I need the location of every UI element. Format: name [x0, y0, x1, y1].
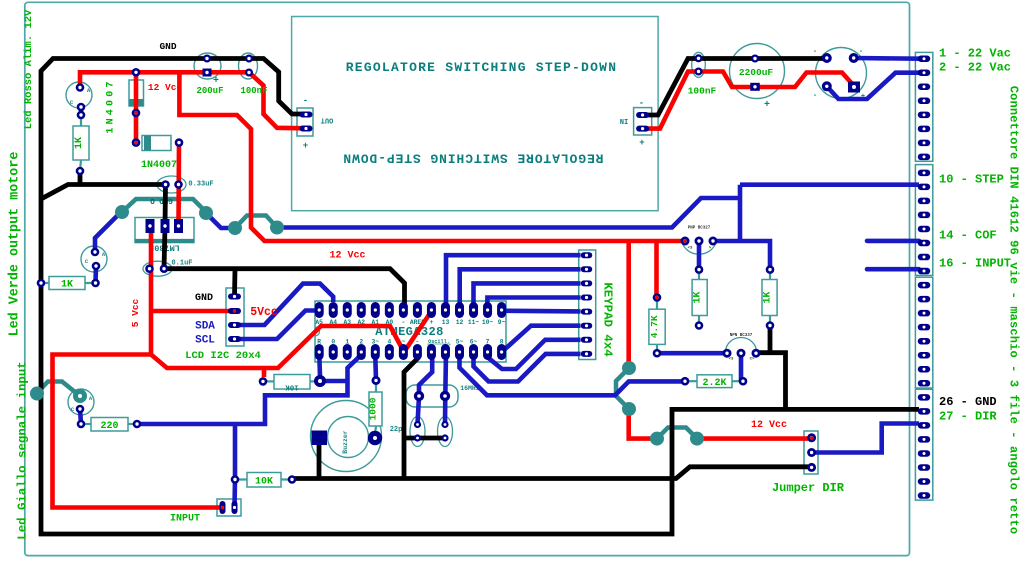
svg-text:Buzzer: Buzzer: [342, 430, 349, 454]
svg-text:27 - DIR: 27 - DIR: [939, 410, 997, 424]
svg-text:13: 13: [442, 319, 450, 326]
svg-text:<3: <3: [688, 246, 693, 251]
svg-text:Jumper DIR: Jumper DIR: [772, 481, 845, 495]
svg-text:SCL: SCL: [195, 335, 215, 347]
svg-text:1 - 22 Vac: 1 - 22 Vac: [939, 47, 1011, 61]
svg-text:1K: 1K: [61, 280, 73, 291]
svg-text:+: +: [303, 141, 308, 151]
svg-text:16 - INPUT: 16 - INPUT: [939, 257, 1011, 271]
svg-text:0.1uF: 0.1uF: [171, 260, 192, 268]
svg-text:1000: 1000: [368, 397, 379, 420]
svg-text:SDA: SDA: [195, 321, 215, 333]
svg-text:+: +: [213, 76, 219, 87]
svg-text:12 Vcc: 12 Vcc: [148, 82, 183, 93]
svg-text:200uF: 200uF: [196, 86, 223, 96]
svg-text:+: +: [430, 319, 434, 326]
svg-text:12 Vcc: 12 Vcc: [751, 420, 787, 431]
svg-text:-: -: [303, 96, 308, 106]
svg-text:-: -: [401, 319, 405, 326]
svg-text:12: 12: [456, 319, 464, 326]
svg-text:22p: 22p: [390, 426, 403, 434]
svg-text:-: -: [639, 99, 644, 109]
svg-text:<3: <3: [729, 357, 734, 362]
svg-text:NPN BC337: NPN BC337: [730, 334, 753, 338]
svg-text:10 - STEP: 10 - STEP: [939, 173, 1004, 187]
svg-text:4.7K: 4.7K: [649, 315, 660, 338]
svg-text:10K: 10K: [255, 477, 273, 488]
svg-text:+: +: [861, 93, 865, 101]
svg-text:1N4007: 1N4007: [106, 78, 117, 133]
svg-text:GND: GND: [195, 293, 213, 304]
svg-text:5 Vcc: 5 Vcc: [130, 298, 141, 327]
svg-text:1K: 1K: [763, 291, 774, 303]
svg-text:-: -: [813, 92, 817, 100]
svg-text:2 - 22 Vac: 2 - 22 Vac: [939, 61, 1011, 75]
svg-text:100nF: 100nF: [240, 86, 267, 96]
svg-text:0.33uF: 0.33uF: [188, 181, 213, 189]
svg-text:-: -: [859, 48, 863, 56]
svg-text:OUT: OUT: [321, 116, 334, 124]
svg-text:REGOLATORE SWITCHING STEP-DOWN: REGOLATORE SWITCHING STEP-DOWN: [342, 151, 603, 166]
svg-text:14 - COF: 14 - COF: [939, 229, 997, 243]
svg-text:9~: 9~: [498, 319, 506, 326]
svg-text:12 Vcc: 12 Vcc: [329, 251, 365, 262]
svg-text:GND: GND: [159, 41, 176, 52]
svg-text:1K: 1K: [74, 137, 85, 149]
svg-text:2.2K: 2.2K: [702, 378, 726, 389]
svg-text:100nF: 100nF: [688, 86, 717, 97]
svg-text:INPUT: INPUT: [170, 514, 200, 525]
svg-text:26 - GND: 26 - GND: [939, 395, 997, 409]
svg-text:Connettore DIN 41612 96 vie -: Connettore DIN 41612 96 vie - maschio - …: [1007, 86, 1021, 534]
svg-text:5Vcc: 5Vcc: [250, 306, 278, 319]
svg-text:10K: 10K: [285, 383, 299, 391]
svg-text:220: 220: [100, 421, 118, 432]
svg-text:LCD I2C 20x4: LCD I2C 20x4: [185, 350, 261, 362]
svg-text:Led Rosso Alim. 12V: Led Rosso Alim. 12V: [23, 9, 35, 129]
svg-text:1N4007: 1N4007: [141, 160, 177, 171]
svg-text:+: +: [764, 100, 770, 111]
svg-text:PNP BC327: PNP BC327: [688, 227, 711, 231]
svg-text:Led Giallo segnale input: Led Giallo segnale input: [16, 361, 30, 539]
svg-text:KEYPAD 4x4: KEYPAD 4x4: [601, 282, 615, 357]
svg-text:REGOLATORE SWITCHING STEP-DOWN: REGOLATORE SWITCHING STEP-DOWN: [346, 60, 618, 75]
svg-text:Led Verde output motore: Led Verde output motore: [8, 152, 23, 337]
svg-text:1K: 1K: [693, 291, 704, 303]
svg-text:11~: 11~: [468, 319, 480, 326]
svg-text:IN: IN: [620, 116, 628, 124]
svg-text:10~: 10~: [482, 319, 494, 326]
svg-text:+: +: [639, 138, 644, 148]
svg-text:2200uF: 2200uF: [739, 67, 774, 78]
svg-text:-: -: [813, 48, 817, 56]
